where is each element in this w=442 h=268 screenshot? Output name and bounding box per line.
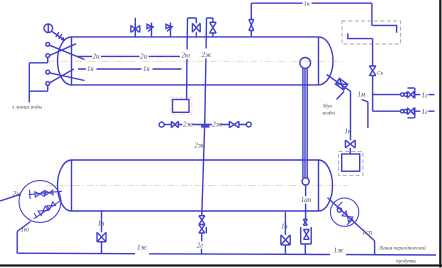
- drain valve bracket: [301, 227, 312, 254]
- bubble flange circle: [337, 208, 341, 212]
- blowoff diagonal pipe from right head: [327, 75, 351, 92]
- svg-text:1к: 1к: [87, 65, 95, 73]
- valve Sk on drop line: [369, 66, 376, 111]
- valve 2zh left: [171, 121, 178, 127]
- svg-text:1сп: 1сп: [362, 229, 373, 237]
- pipe stub dash lower: [429, 110, 435, 112]
- svg-text:2и: 2и: [13, 190, 20, 198]
- orifice flange bar: [201, 125, 210, 127]
- pipe 1k top header: [251, 2, 372, 4]
- pipe 2zh down to lower vessel: [202, 127, 205, 216]
- valve in box on silencer line: [345, 140, 355, 154]
- bubble upper valve 2: [45, 190, 53, 195]
- internal pipe row 2i upper vessel: [77, 55, 180, 57]
- bubble upper valve line: [29, 190, 62, 199]
- svg-text:з линии воды: з линии воды: [11, 104, 42, 111]
- bubble diagonal valve: [337, 202, 354, 225]
- safety valve in box on loop 1: [192, 23, 200, 37]
- valve assembly 1g lower: [401, 110, 404, 113]
- svg-text:жабкі: жабкі: [322, 112, 336, 117]
- vessel B2 left dished head: [58, 160, 72, 211]
- safety valve V1 in box: [131, 18, 140, 37]
- sample header right circle: [246, 122, 251, 127]
- nozzle diagonal pipes crossing head: [49, 44, 84, 83]
- drop to blowdown header: [374, 241, 376, 255]
- svg-text:1г: 1г: [422, 91, 429, 99]
- sample header left pipe: [164, 124, 171, 126]
- riser U-loop 2: [205, 18, 213, 125]
- gate valve on loop 2: [210, 22, 217, 37]
- svg-text:2ж: 2ж: [194, 141, 205, 149]
- drain pipe 1v left: [101, 211, 103, 232]
- svg-text:2и: 2и: [93, 53, 101, 61]
- svg-text:1к: 1к: [345, 128, 353, 136]
- valve assembly 1g upper: [401, 93, 404, 96]
- bubble lower valve 2: [47, 202, 56, 210]
- riser to line 1k: [250, 3, 252, 37]
- cooler dashed boundary box: [342, 21, 401, 44]
- condensate pot box: [173, 100, 190, 113]
- control valve on downcomer drain: [303, 219, 307, 225]
- detail bubble left circle: [19, 181, 61, 223]
- drain valve in box left: [97, 232, 106, 253]
- valve 2zh right: [229, 121, 239, 127]
- instrument gauge diaphragm bar: [47, 24, 49, 33]
- svg-text:1г: 1г: [422, 108, 429, 116]
- bubble lower valve 1: [38, 206, 48, 215]
- svg-text:2ж: 2ж: [183, 120, 194, 128]
- svg-text:2ю: 2ю: [182, 52, 191, 60]
- gate valve on riser 1k: [249, 20, 254, 31]
- detail bubble right circle: [330, 198, 358, 226]
- svg-text:Линия периодической: Линия периодической: [378, 245, 427, 252]
- sample header 2zh left circle: [159, 122, 164, 127]
- cooler coil pass: [348, 25, 397, 66]
- downcomer double pipe: [303, 68, 307, 178]
- instrument pointer with ticks: [52, 32, 64, 40]
- instrument gauge circle: [44, 24, 53, 33]
- svg-text:1м: 1м: [358, 91, 367, 99]
- svg-text:1к: 1к: [143, 65, 151, 73]
- branch pipe 1g upper: [373, 94, 401, 96]
- downcomer lower continuation: [305, 185, 307, 219]
- svg-text:1в: 1в: [98, 219, 105, 227]
- blowdown diagonal through bubble: [328, 198, 375, 241]
- vent valve V3: [166, 23, 173, 37]
- vent valve V2: [147, 23, 154, 37]
- steam equalizing circle upper: [300, 58, 311, 69]
- pipe stub dash upper: [429, 94, 435, 96]
- blowdown exit from bubble: [17, 222, 30, 254]
- centerline upper vessel: [48, 60, 345, 62]
- pipe drop into cooler: [371, 3, 373, 25]
- svg-text:2и: 2и: [140, 53, 148, 61]
- blowdown header pipe: [17, 253, 436, 255]
- silencer dashed boundary: [339, 152, 363, 176]
- svg-text:1ж: 1ж: [137, 244, 148, 252]
- inlet nozzle flange circles: [46, 42, 50, 46]
- branch pipe 1g lower: [373, 110, 401, 112]
- svg-text:1ю: 1ю: [21, 226, 30, 234]
- capillary line 1m: [362, 100, 368, 129]
- bubble lower valve line: [34, 200, 62, 219]
- silencer box: [342, 154, 360, 171]
- condensate pot dashed halo: [170, 97, 192, 114]
- feed pipe 2i into bubble: [0, 194, 21, 201]
- centerline lower vessel: [46, 185, 348, 187]
- svg-text:1ж: 1ж: [334, 247, 345, 255]
- svg-text:1в: 1в: [281, 223, 288, 231]
- svg-text:Ск: Ск: [377, 71, 384, 77]
- drain pipe 1v right: [284, 212, 286, 235]
- water feed manifold: [29, 58, 47, 103]
- svg-text:2ж: 2ж: [212, 120, 223, 128]
- svg-text:Здув: Здув: [323, 105, 333, 110]
- riser U-loop 1: [187, 18, 197, 99]
- vessel B2 right dished head: [319, 160, 333, 211]
- diagonal valve with box: [336, 79, 348, 90]
- leader line to text: [337, 92, 345, 100]
- drain valve in box right: [281, 235, 290, 254]
- svg-text:2г: 2г: [197, 241, 204, 249]
- svg-text:1к: 1к: [304, 0, 311, 7]
- vessel B1 right dished head: [319, 37, 334, 85]
- internal pipe row 1k upper vessel: [78, 68, 182, 70]
- pipe 1k down to silencer: [350, 91, 352, 140]
- page edge right: [439, 0, 441, 268]
- vessel B1 left dished head: [58, 37, 72, 85]
- valve on 2g drain: [199, 216, 207, 255]
- svg-text:2ж: 2ж: [202, 51, 213, 59]
- vessel B1 upper drum shell: [72, 37, 319, 85]
- vessel B2 lower drum shell: [72, 160, 319, 211]
- page edge bottom: [0, 264, 442, 266]
- svg-text:1ап: 1ап: [301, 196, 312, 204]
- bubble upper valve 1: [35, 191, 45, 197]
- sample header mid pipe: [178, 124, 246, 126]
- svg-text:продувки: продувки: [396, 257, 416, 264]
- steam circle lower: [302, 178, 309, 185]
